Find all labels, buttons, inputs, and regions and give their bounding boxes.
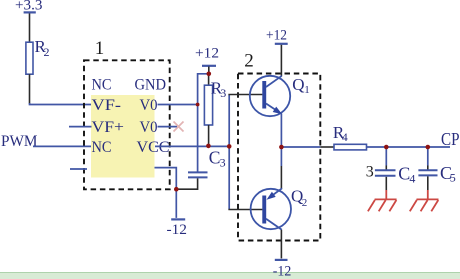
svg-text:2: 2	[44, 45, 50, 59]
resistor R3	[204, 74, 226, 146]
junction dot emitters	[279, 145, 284, 150]
wire Q2 base	[228, 209, 262, 211]
capacitor C4	[366, 147, 416, 190]
transistor Q2	[251, 186, 308, 230]
svg-text:V0: V0	[140, 97, 158, 114]
resistor R2	[26, 37, 50, 74]
power -12 (below Q2)	[273, 260, 292, 279]
wire Q1 emitter to node	[280, 114, 282, 148]
ground (C5)	[410, 190, 439, 211]
wire node to Q2	[280, 147, 282, 166]
junction dot base bus	[227, 144, 232, 149]
svg-text:5: 5	[450, 171, 456, 185]
svg-text:Q: Q	[292, 75, 304, 94]
svg-text:2: 2	[302, 197, 308, 209]
junction dot C5	[426, 145, 431, 150]
transistor dashed box 2	[238, 51, 320, 241]
svg-text:-12: -12	[167, 222, 188, 238]
IC dashed box 1	[84, 38, 170, 189]
svg-text:+12: +12	[266, 27, 287, 43]
svg-text:GND: GND	[135, 76, 167, 93]
capacitor C5	[418, 147, 455, 190]
svg-text:NC: NC	[92, 76, 112, 93]
wire PWM to NC pin	[33, 145, 92, 147]
svg-text:4: 4	[409, 172, 415, 186]
svg-text:NC: NC	[92, 139, 112, 156]
wire VF+ stub	[69, 126, 92, 128]
svg-text:VCC: VCC	[137, 139, 170, 156]
svg-text:3: 3	[220, 155, 226, 169]
wire C3 bottom to node	[176, 178, 197, 189]
wire +3.3 to R2	[29, 14, 31, 43]
ground (C4)	[368, 190, 397, 211]
svg-text:PWM: PWM	[1, 133, 38, 150]
wire +12 to Q1 collector	[280, 45, 282, 76]
svg-text:4: 4	[342, 130, 348, 144]
wire	[30, 103, 92, 105]
wire node to R4	[281, 146, 320, 148]
svg-text:VF-: VF-	[92, 97, 122, 114]
wire Q1 base	[228, 94, 262, 96]
svg-text:+12: +12	[195, 46, 219, 62]
junction dot C4	[384, 145, 389, 150]
svg-text:-12: -12	[273, 264, 292, 279]
green footer strip	[0, 273, 460, 279]
wire node to -12	[175, 189, 177, 218]
wire right 4th pin to C3 bottom node	[155, 168, 177, 190]
transistor Q1	[250, 75, 310, 116]
wire +12 branch down to C3 top	[198, 74, 209, 173]
power +3.3	[15, 0, 43, 14]
IC body U1	[91, 95, 155, 178]
wire R2 to VF-	[29, 74, 31, 104]
power -12 (below C3)	[167, 219, 188, 238]
wire VCC row to transistor base bus	[155, 145, 229, 147]
svg-text:3: 3	[220, 86, 226, 100]
svg-text:1: 1	[95, 38, 105, 59]
wire V0 row2 to +12 rail	[158, 104, 198, 106]
junction dot V0/+12 rail	[196, 103, 200, 107]
no-ERC cross on V0 stub	[174, 122, 184, 132]
junction dot R3/VCC row	[206, 144, 211, 149]
base bus wire	[228, 95, 230, 210]
svg-text:3: 3	[366, 164, 374, 181]
svg-text:V0: V0	[140, 119, 158, 136]
power +12 (above Q1)	[266, 27, 288, 44]
junction dot C3/-12	[174, 187, 179, 192]
junction dot +12/R3	[207, 72, 212, 77]
svg-text:2: 2	[244, 51, 254, 72]
wire R4 to CP	[367, 146, 451, 148]
resistor R4	[333, 123, 367, 150]
svg-text:VF+: VF+	[92, 119, 125, 136]
wire Q2 collector to -12	[280, 230, 282, 259]
power +12 (above R3)	[195, 46, 219, 74]
capacitor C3	[188, 147, 226, 177]
wire left 4th pin stub	[70, 168, 87, 170]
wire V0 row3 stub	[158, 126, 178, 128]
svg-text:1: 1	[304, 84, 310, 96]
svg-text:CP: CP	[441, 129, 460, 149]
